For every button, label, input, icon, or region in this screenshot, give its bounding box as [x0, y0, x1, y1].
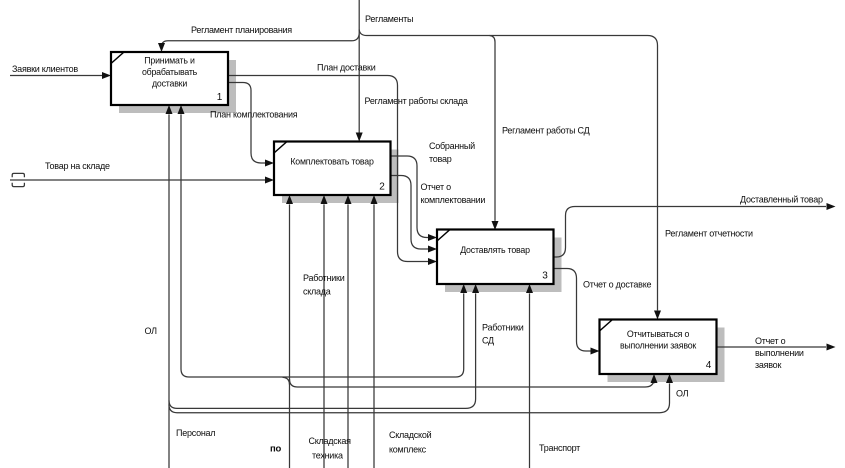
svg-text:Регламент работы склада: Регламент работы склада	[365, 96, 468, 106]
box 3 corner slash	[437, 230, 450, 242]
junction arc at ПО vertical	[283, 377, 290, 384]
svg-text:ОЛ: ОЛ	[676, 389, 689, 399]
svg-text:товар: товар	[429, 154, 452, 164]
svg-text:Регламент отчетности: Регламент отчетности	[665, 229, 753, 239]
svg-text:Регламент планирования: Регламент планирования	[191, 25, 292, 35]
svg-text:выполнении: выполнении	[755, 348, 804, 358]
svg-text:План доставки: План доставки	[317, 63, 376, 73]
svg-text:3: 3	[542, 271, 548, 282]
svg-text:Отчет о доставке: Отчет о доставке	[583, 280, 651, 290]
svg-text:техника: техника	[312, 451, 343, 461]
box 1 corner slash	[111, 52, 124, 64]
activity box 3: Доставлять товар	[437, 230, 554, 285]
wire: Персонал / ОЛ vertical into box 1 bottom	[168, 114, 170, 468]
wire: Транспорт vertical into box 3 bottom	[529, 293, 531, 468]
svg-text:Работники: Работники	[303, 273, 345, 283]
svg-text:Отчитываться о: Отчитываться о	[627, 329, 690, 339]
activity box 4: Отчитываться о выполнении заявок	[600, 320, 717, 375]
wire: Регламенты right branch (to Регламент отчетности, box 4 top)	[359, 30, 657, 311]
wire: Складской комплекс vertical into box 2 bottom	[373, 204, 375, 468]
svg-text:обрабатывать: обрабатывать	[142, 67, 198, 77]
box 4 corner slash	[600, 320, 613, 332]
wire: План комплектования (box 1 output down into box 2 left)	[228, 83, 265, 164]
svg-text:Отчет о: Отчет о	[755, 336, 786, 346]
activity box 4 shadow	[608, 328, 725, 383]
svg-text:2: 2	[379, 182, 385, 193]
svg-text:Заявки клиентов: Заявки клиентов	[12, 64, 78, 74]
wire: feedback line box1-box3 bottoms	[181, 114, 464, 377]
svg-text:Складская: Складская	[309, 436, 352, 446]
svg-text:Персонал: Персонал	[176, 428, 215, 438]
svg-text:доставки: доставки	[152, 79, 187, 89]
svg-text:Доставленный товар: Доставленный товар	[740, 195, 823, 205]
svg-text:План комплектования: План комплектования	[210, 110, 298, 120]
wire: Отчет о доставке (box 3 output down into box 4 left)	[554, 269, 591, 352]
svg-text:4: 4	[706, 360, 712, 371]
svg-text:заявок: заявок	[755, 360, 781, 370]
wire: Собранный товар (box 2 output into box 3 left)	[391, 156, 429, 238]
svg-text:Транспорт: Транспорт	[539, 443, 580, 453]
wire: Регламент планирования (left branch into box 1 top)	[162, 34, 360, 48]
svg-text:Принимать и: Принимать и	[144, 56, 195, 66]
svg-text:Регламент работы СД: Регламент работы СД	[502, 126, 590, 136]
activity box 2: Комплектовать товар	[274, 142, 391, 196]
wire: Складская техника vertical 2 into box 2 bottom	[347, 204, 349, 468]
wire: Регламенты main vertical into box 2 top	[358, 0, 360, 133]
tunnel bracket upper	[12, 173, 24, 177]
wire: horizontal into box 4 bottom (left arrow)	[290, 379, 655, 388]
wire: ОЛ horizontal into box 4 bottom	[169, 383, 670, 412]
box 2 corner slash	[274, 142, 287, 154]
activity box 1: Принимать и обрабатывать доставки	[111, 52, 228, 105]
svg-text:1: 1	[217, 92, 223, 103]
svg-text:Доставлять товар: Доставлять товар	[460, 245, 530, 255]
svg-text:склада: склада	[303, 287, 331, 297]
svg-text:выполнении заявок: выполнении заявок	[620, 341, 696, 351]
wire: Заявки клиентов into box 1 left	[10, 75, 102, 77]
activity box 2 shadow	[282, 150, 399, 204]
wire: Отчет о комплектовании (box 2 output into box 3 left)	[391, 176, 429, 250]
wire: Регламент работы СД branch down into box 3 top	[490, 36, 496, 221]
wire: Товар на складе into box 2 left	[10, 179, 265, 181]
svg-text:Товар на складе: Товар на складе	[45, 161, 110, 171]
svg-text:ОЛ: ОЛ	[145, 326, 158, 336]
activity box 3 shadow	[445, 238, 562, 293]
svg-text:комплекс: комплекс	[389, 445, 427, 455]
tunnel bracket lower	[12, 183, 24, 187]
wire: Складская техника vertical 1 into box 2 bottom	[323, 204, 325, 468]
wire: ПО vertical into box 2 bottom	[289, 204, 291, 468]
svg-text:комплектовании: комплектовании	[421, 195, 486, 205]
wire: branch into box 3 bottom (middle)	[169, 293, 476, 408]
svg-text:СД: СД	[482, 336, 494, 346]
svg-text:Регламенты: Регламенты	[365, 14, 413, 24]
activity box 1 shadow	[119, 60, 236, 113]
svg-text:Работники: Работники	[482, 323, 524, 333]
svg-text:Складской: Складской	[389, 430, 432, 440]
svg-text:Отчет о: Отчет о	[421, 182, 452, 192]
wire: Отчет о выполнении заявок (box 4 output to right edge)	[717, 346, 827, 348]
svg-text:Собранный: Собранный	[429, 141, 475, 151]
svg-text:по: по	[270, 444, 281, 455]
wire: Доставленный товар (box 3 output to right edge)	[554, 207, 827, 258]
wire: План доставки (box 1 output down into box 3 left)	[228, 76, 428, 262]
svg-text:Комплектовать товар: Комплектовать товар	[290, 157, 374, 167]
